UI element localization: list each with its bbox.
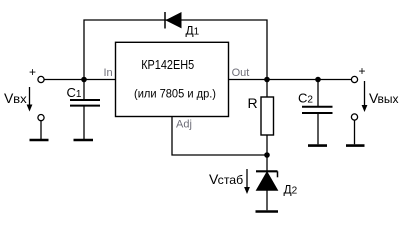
svg-text:In: In [104, 67, 113, 79]
wire output lower terminal to rail [354, 120, 356, 144]
resistor R [266, 80, 268, 98]
svg-text:+: + [29, 65, 36, 79]
svg-text:Out: Out [232, 67, 250, 79]
input terminal circle [38, 76, 44, 82]
wire top loop from input node to output node [84, 20, 267, 80]
svg-text:стаб: стаб [218, 173, 244, 187]
zener D2 [266, 155, 268, 171]
output wire [229, 79, 352, 81]
diode D1 triangle [167, 13, 182, 28]
svg-text:вх: вх [13, 92, 27, 106]
rail bar C1 [74, 139, 94, 142]
output lower terminal circle [351, 114, 357, 120]
node input junction [81, 77, 87, 83]
node output junction [264, 77, 270, 83]
node C2 junction [315, 77, 321, 83]
regulator U1 box [116, 42, 229, 116]
arrow Vin [29, 87, 31, 107]
rail bar C2 [308, 144, 327, 147]
rail bar input [30, 139, 49, 142]
input lower terminal circle [38, 115, 44, 121]
input wire [44, 79, 116, 81]
node Adj junction [264, 152, 270, 158]
rail bar D2 [256, 210, 279, 213]
capacitor C2 [317, 80, 319, 107]
svg-text:Д2: Д2 [284, 182, 298, 196]
output terminal circle [351, 76, 357, 82]
svg-text:вых: вых [378, 92, 399, 106]
rail bar output [346, 144, 365, 147]
capacitor C1 [83, 80, 85, 100]
diode D1 cathode bar [164, 12, 166, 29]
svg-text:Д1: Д1 [186, 23, 200, 37]
svg-text:Adj: Adj [176, 119, 192, 131]
svg-text:КР142ЕН5: КР142ЕН5 [141, 58, 194, 72]
arrow Vout [364, 81, 366, 108]
svg-text:(или 7805 и др.): (или 7805 и др.) [134, 87, 216, 101]
wire input lower terminal to rail [40, 121, 42, 139]
wire Adj to node [172, 117, 267, 156]
svg-text:R: R [248, 95, 258, 111]
arrow Vstab [246, 169, 248, 190]
svg-text:+: + [359, 64, 366, 78]
